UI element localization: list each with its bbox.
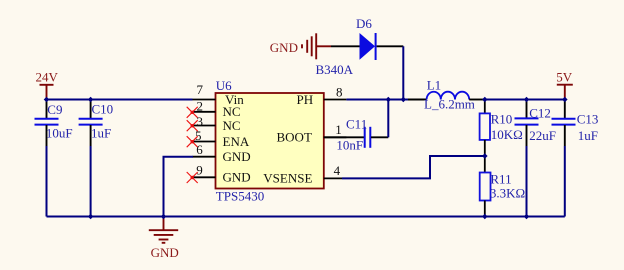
junction at 24V/C9 bbox=[44, 97, 50, 103]
resistor R11 bbox=[480, 156, 491, 217]
5V power symbol bbox=[557, 85, 573, 100]
junction at D6/PH bbox=[401, 97, 407, 103]
capacitor C11 (boot cap, horizontal) bbox=[324, 127, 389, 148]
junction at R10 top bbox=[482, 97, 488, 103]
svg-text:1: 1 bbox=[335, 122, 342, 137]
no-connect X pin 5 bbox=[187, 136, 198, 147]
svg-text:4: 4 bbox=[334, 163, 341, 178]
svg-text:GND: GND bbox=[151, 245, 179, 260]
svg-text:R10: R10 bbox=[491, 112, 513, 127]
wire: pin 6 to ground rail bbox=[164, 157, 194, 217]
svg-text:GND: GND bbox=[223, 170, 251, 185]
IC U6 body bbox=[216, 93, 324, 189]
svg-text:L1: L1 bbox=[427, 77, 441, 92]
diode D6 bbox=[331, 33, 403, 60]
wire: bottom ground rail bbox=[47, 216, 565, 218]
capacitor C13 bbox=[552, 100, 576, 147]
wire: C12 to bottom rail bbox=[526, 146, 528, 217]
capacitor C12 bbox=[515, 100, 539, 147]
svg-text:1uF: 1uF bbox=[91, 126, 111, 141]
junction at 5V/C13 bbox=[562, 97, 568, 103]
inductor L1 bbox=[408, 92, 485, 100]
svg-text:R11: R11 bbox=[490, 171, 511, 186]
no-connect X pin 2 bbox=[187, 107, 198, 118]
no-connect X pin 3 bbox=[187, 120, 198, 131]
svg-text:22uF: 22uF bbox=[529, 128, 556, 143]
pin 9 GND bbox=[193, 162, 251, 184]
junction at C10 top bbox=[88, 97, 94, 103]
junction at C12 top bbox=[524, 97, 530, 103]
svg-text:C12: C12 bbox=[529, 105, 551, 120]
svg-text:PH: PH bbox=[297, 92, 314, 107]
junction at GND symbol bbox=[161, 214, 167, 220]
junction at C11/PH bbox=[386, 97, 392, 103]
svg-text:ENA: ENA bbox=[223, 134, 250, 149]
resistor R10 bbox=[480, 100, 490, 157]
ground symbol (bottom) bbox=[149, 217, 178, 243]
pin 1 BOOT bbox=[277, 122, 347, 145]
no-connect X pin 9 bbox=[187, 172, 198, 183]
wire: C11 up to PH node bbox=[387, 100, 389, 138]
wire: output rail bbox=[485, 99, 565, 101]
svg-text:C9: C9 bbox=[47, 102, 62, 117]
svg-text:TPS5430: TPS5430 bbox=[216, 189, 264, 204]
capacitor C9 bbox=[35, 100, 59, 147]
svg-text:C13: C13 bbox=[577, 112, 599, 127]
pin 3 NC bbox=[193, 114, 241, 133]
svg-text:7: 7 bbox=[197, 82, 204, 97]
pin 6 GND bbox=[193, 142, 251, 164]
capacitor C10 bbox=[79, 100, 103, 147]
svg-text:3.3KΩ: 3.3KΩ bbox=[490, 186, 525, 201]
svg-text:C10: C10 bbox=[92, 102, 114, 117]
pin 2 NC bbox=[193, 98, 241, 119]
power ground symbol (top, at D6 anode) bbox=[302, 33, 331, 59]
wire: diode cathode down to PH node bbox=[402, 46, 404, 99]
svg-text:GND: GND bbox=[270, 40, 298, 55]
pin 4 VSENSE bbox=[263, 163, 342, 185]
wire: C9 to bottom rail bbox=[46, 146, 48, 217]
svg-text:6: 6 bbox=[196, 142, 203, 157]
pin 7 Vin bbox=[193, 82, 245, 107]
svg-text:NC: NC bbox=[223, 118, 241, 133]
svg-text:BOOT: BOOT bbox=[277, 130, 312, 145]
junction at C10 bottom bbox=[88, 214, 94, 220]
svg-text:1uF: 1uF bbox=[578, 128, 598, 143]
svg-text:GND: GND bbox=[223, 149, 251, 164]
wire: top input rail bbox=[47, 99, 193, 101]
svg-text:VSENSE: VSENSE bbox=[263, 170, 312, 185]
svg-text:B340A: B340A bbox=[316, 62, 354, 77]
24V power symbol bbox=[40, 85, 54, 100]
svg-text:C11: C11 bbox=[346, 117, 367, 132]
wire: C10 to bottom rail bbox=[90, 146, 92, 217]
svg-text:24V: 24V bbox=[36, 70, 59, 85]
svg-text:10KΩ: 10KΩ bbox=[491, 127, 523, 142]
svg-text:U6: U6 bbox=[216, 78, 232, 93]
pin 5 ENA bbox=[193, 128, 250, 149]
svg-text:3: 3 bbox=[197, 114, 204, 129]
svg-text:10nF: 10nF bbox=[336, 138, 363, 153]
pin 8 PH bbox=[297, 84, 347, 106]
svg-text:D6: D6 bbox=[356, 16, 372, 31]
svg-text:8: 8 bbox=[336, 84, 343, 99]
junction at R10/R11/VSENSE bbox=[482, 153, 488, 159]
svg-text:5: 5 bbox=[195, 128, 202, 143]
junction at C12 bottom bbox=[524, 214, 530, 220]
wire: C13 to bottom rail corner bbox=[564, 146, 566, 217]
svg-text:9: 9 bbox=[196, 162, 203, 177]
wire: PH node segment bbox=[346, 99, 408, 101]
junction at R11 bottom bbox=[482, 214, 488, 220]
svg-text:L_6.2mm: L_6.2mm bbox=[424, 97, 475, 112]
svg-text:10uF: 10uF bbox=[46, 126, 73, 141]
svg-text:2: 2 bbox=[197, 98, 204, 113]
svg-text:5V: 5V bbox=[556, 70, 573, 85]
wire: VSENSE to divider bbox=[342, 156, 485, 178]
